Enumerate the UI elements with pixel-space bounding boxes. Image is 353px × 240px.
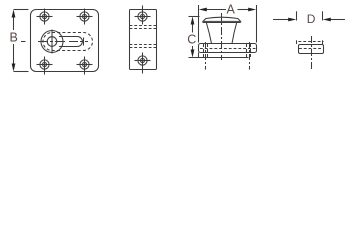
svg-text:D: D <box>307 12 316 26</box>
svg-text:B: B <box>10 30 18 44</box>
svg-text:A: A <box>227 2 236 16</box>
svg-text:C: C <box>187 33 196 47</box>
